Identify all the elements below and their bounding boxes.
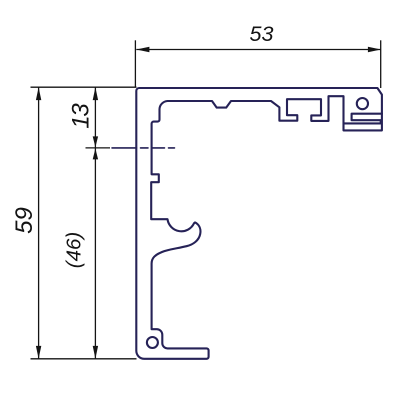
extension line bottom horizontal bbox=[31, 358, 137, 360]
arrowheads bbox=[36, 47, 381, 359]
arrow 13 bottom bbox=[93, 136, 98, 147]
screw hole bottom foot bbox=[147, 337, 158, 348]
extension line 53 left vertical bbox=[134, 40, 136, 86]
screw hole top right bbox=[357, 98, 368, 109]
profile outline (aluminum corner profile cross-section) bbox=[112, 88, 382, 359]
extension line top-left horizontal bbox=[31, 86, 137, 88]
center dash line at y=148 bbox=[112, 147, 175, 149]
dimension line 59 bbox=[38, 87, 40, 359]
arrow 13 top bbox=[93, 87, 98, 100]
svg-text:(46): (46) bbox=[63, 232, 86, 268]
svg-text:59: 59 bbox=[11, 207, 38, 234]
arrow 59 top bbox=[36, 87, 41, 100]
arrow 46 top bbox=[93, 149, 98, 160]
dimension lines bbox=[31, 40, 382, 359]
extension line 53 right vertical bbox=[380, 40, 382, 88]
arrow 53 left bbox=[136, 47, 149, 52]
svg-text:53: 53 bbox=[250, 22, 274, 46]
dimension line 53 bbox=[136, 49, 381, 51]
tick at 13/46 boundary bbox=[86, 147, 111, 149]
dimension line 13 and 46 bbox=[94, 87, 96, 359]
arrow 53 right bbox=[368, 47, 381, 52]
arrow 46 bottom bbox=[93, 346, 98, 359]
wire main outline bbox=[136, 88, 382, 359]
svg-text:13: 13 bbox=[67, 103, 94, 129]
wire screw-port floor and lower flange top bbox=[344, 114, 383, 124]
arrow 59 bottom bbox=[36, 346, 41, 359]
